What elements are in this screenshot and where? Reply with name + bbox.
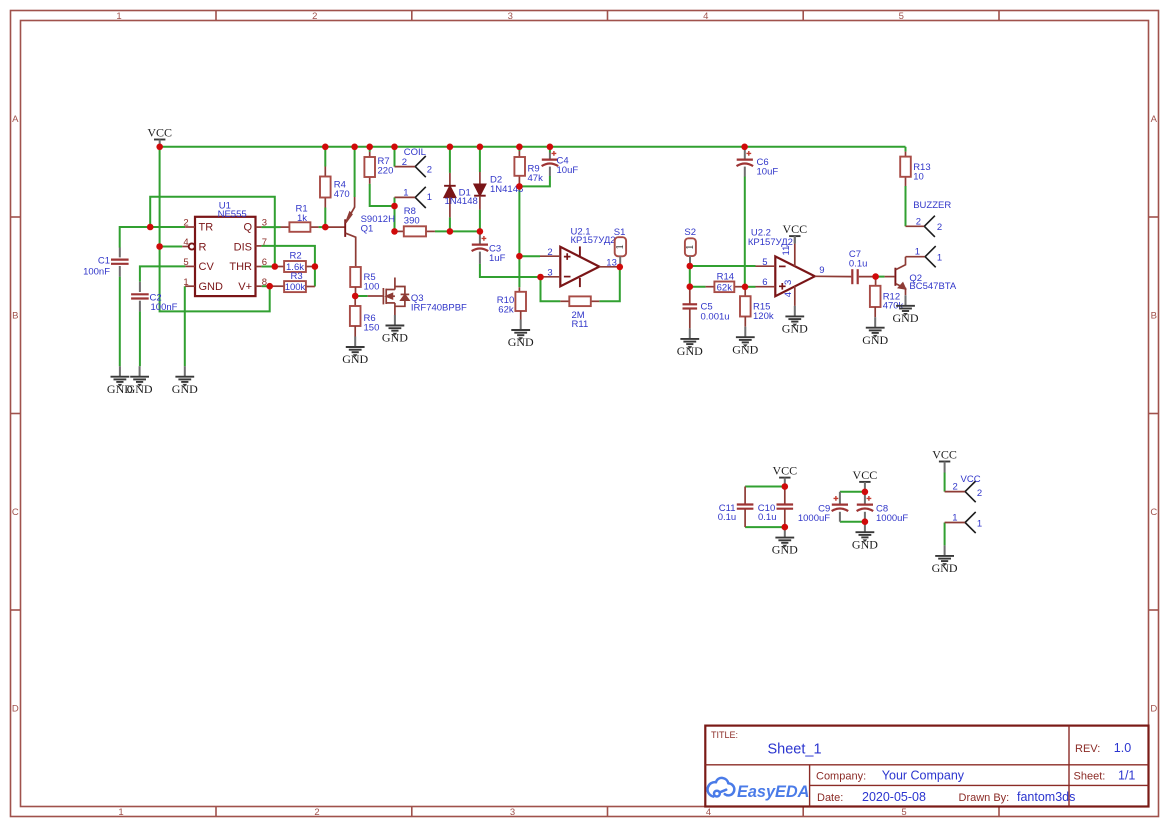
svg-text:10uF: 10uF [757,167,779,178]
wire C9 bottom to C8 GND node [840,521,865,523]
svg-text:470: 470 [334,189,350,200]
wire VCC rail to Q1 emitter [354,147,356,197]
svg-text:VCC: VCC [853,468,878,482]
svg-text:R11: R11 [572,319,589,330]
resistor R3 [270,271,315,293]
resistor R9 [514,151,543,186]
svg-text:КР157УД2: КР157УД2 [571,235,616,246]
U2.2 reference labels [748,227,793,248]
power VCC main [147,126,172,147]
ground GND C5 [677,328,703,358]
frame row letters right [1150,114,1157,714]
ground GND Q3 [382,315,408,345]
capacitor C8 1000uF [857,492,909,524]
wire R pin4 stub [160,246,183,248]
IC U1 NE555 [182,217,261,296]
capacitor C10 0.1u [758,487,793,528]
wire D1 to R8 node [449,217,451,231]
svg-text:A: A [12,114,19,125]
svg-text:2: 2 [402,157,407,168]
svg-text:1000uF: 1000uF [876,513,908,524]
wire TR-THR top loop [150,197,275,267]
wire R1 to Q1 base node [319,226,326,228]
wire C3 to op-amp pin3 [480,264,541,277]
capacitor C1 [83,248,129,278]
wire R13 to BUZZER pin2 [905,186,907,226]
svg-text:C: C [1150,507,1157,518]
ground GND C1 [107,366,133,396]
transistor Q1 S9012H [325,197,395,267]
svg-text:1: 1 [427,192,432,203]
ground GND U2.2 [782,306,808,336]
wire Q pin3 to R1 [261,226,280,228]
svg-text:5: 5 [899,11,904,22]
ground GND C10 [772,527,798,557]
svg-text:5: 5 [762,257,767,268]
connector COIL pin 1 [395,187,433,208]
wire VCC top rail [160,146,906,148]
svg-text:Sheet_1: Sheet_1 [768,742,822,758]
junction dots circuit [147,183,879,530]
wire D2 to C3 node [479,210,481,232]
svg-text:47k: 47k [528,173,544,184]
wire VCC rail to COIL pin2 [394,147,396,167]
svg-text:1: 1 [116,11,121,22]
wire R14 right node to pin6 [745,286,756,288]
wire C11 bottom to C10 GND node [745,526,785,528]
wire TR pin2 to C1 [120,227,185,248]
ground GND C8 [852,522,878,552]
svg-text:DIS: DIS [234,241,252,253]
svg-text:CV: CV [199,261,215,273]
wire C1 to GND [119,277,121,367]
svg-text:S2: S2 [684,227,696,238]
frame row ticks right [1149,217,1159,610]
svg-text:GND: GND [508,335,534,349]
wire Q1/R5 node to Q3 gate [355,295,368,297]
U2.2 pin numbers [762,246,824,298]
svg-text:THR: THR [229,261,252,273]
capacitor C6 10uF [737,147,779,178]
wire C8 VCC node to C9 [840,491,865,493]
connector pin 1 to GND [945,512,983,533]
svg-text:390: 390 [404,216,420,227]
svg-text:62k: 62k [498,305,514,316]
svg-text:0.1u: 0.1u [718,512,737,523]
svg-text:8: 8 [262,277,267,288]
title block inner lines [705,726,1148,807]
svg-text:4: 4 [706,807,711,818]
resistor R14 62k [706,271,745,293]
svg-text:62k: 62k [717,282,733,293]
ground GND C2 [127,366,153,396]
svg-text:9: 9 [819,265,824,276]
svg-text:VCC: VCC [147,126,172,140]
svg-text:COIL: COIL [404,147,426,158]
svg-text:NE555: NE555 [218,209,247,220]
svg-text:C: C [12,507,19,518]
svg-text:GND: GND [382,331,408,345]
resistor R4 [320,167,350,208]
svg-text:10uF: 10uF [557,165,579,176]
svg-text:R2: R2 [290,251,302,262]
switch S2 [684,227,696,266]
wire VCC connector stem [944,469,946,473]
svg-text:100k: 100k [285,282,306,293]
wire C2 to GND [139,311,141,366]
wire R9/C4 node down to pin2 and R10 [518,186,520,287]
svg-text:GND: GND [732,342,758,356]
svg-text:BC547BTA: BC547BTA [909,281,956,292]
wire S2 node down to R14 node [689,266,691,287]
svg-text:2: 2 [427,164,432,175]
svg-text:Date:: Date: [817,792,843,804]
svg-text:1: 1 [977,518,982,529]
svg-text:B: B [12,311,18,322]
resistor R12 [870,277,904,318]
U1 reference labels [218,200,247,220]
wire CV pin5 to C2 [140,266,186,281]
frame row ticks left [11,217,21,610]
wire U2.1 feedback loop via R11 [541,277,561,301]
wire DIS pin7 to R2/R3 right side [261,246,315,287]
svg-text:VCC: VCC [772,464,797,478]
wire THR pin6 stub [261,266,274,268]
power VCC connector [932,448,957,469]
svg-text:BUZZER: BUZZER [913,200,951,211]
ground GND U1 [172,366,198,396]
svg-text:1uF: 1uF [489,253,506,264]
wire VCC rail to R9 [518,147,520,151]
frame column ticks top [216,11,999,21]
svg-text:1/1: 1/1 [1118,769,1135,783]
ground GND R15 [732,327,758,357]
svg-text:100nF: 100nF [151,302,178,313]
svg-text:D: D [12,704,19,715]
svg-text:B: B [1151,311,1157,322]
svg-text:1000uF: 1000uF [798,513,830,524]
svg-text:GND: GND [852,537,878,551]
wire C6 down to U2.2 pin6 node [744,177,746,287]
resistor R5 [350,267,379,296]
wire VCC rail to D2 [479,147,481,172]
svg-text:GND: GND [772,543,798,557]
svg-text:2020-05-08: 2020-05-08 [862,790,926,804]
svg-text:GND: GND [342,352,368,366]
svg-text:GND: GND [862,333,888,347]
svg-text:GND: GND [782,322,808,336]
svg-text:GND: GND [199,281,224,293]
svg-text:2: 2 [183,217,188,228]
svg-text:2: 2 [916,216,921,227]
resistor R10 [497,287,526,319]
wire S2 node to op-amp pin5 [690,265,756,267]
svg-text:1: 1 [952,512,957,523]
svg-text:Drawn By:: Drawn By: [959,792,1010,804]
connector BUZZER pin 2 [906,216,943,237]
ground GND Q2 [893,295,919,325]
wire C10 VCC node to C11 [745,486,785,488]
svg-text:6: 6 [762,277,767,288]
svg-text:V+: V+ [238,281,252,293]
svg-text:3: 3 [508,11,513,22]
svg-text:EasyEDA: EasyEDA [737,783,809,801]
svg-text:Q1: Q1 [361,224,374,235]
svg-text:КР157УД2: КР157УД2 [748,237,793,248]
resistor R2 [275,251,315,273]
svg-text:150: 150 [364,323,380,334]
svg-text:1: 1 [403,188,408,199]
svg-text:2: 2 [977,488,982,499]
transistor Q3 IRF740BPBF mosfet [368,278,467,316]
wire R8 to D1 anode node [435,230,480,232]
capacitor C2 [131,282,178,313]
svg-text:TR: TR [199,222,214,234]
capacitor C11 0.1u [718,487,754,528]
frame column numbers bottom [118,807,906,818]
resistor R13 [900,152,930,186]
svg-text:1: 1 [684,244,696,250]
resistor R8 [395,206,435,236]
svg-text:2: 2 [953,482,958,493]
svg-text:fantom3ds: fantom3ds [1017,790,1075,804]
svg-text:1.0: 1.0 [1114,741,1131,755]
svg-text:4: 4 [703,11,708,22]
svg-text:4: 4 [783,292,794,297]
svg-text:6: 6 [262,257,267,268]
diode D2 1N4148 [474,172,523,210]
ground GND R10 [508,320,534,350]
wire pin2 node to op-amp [519,255,540,257]
wire Q2 base [878,276,885,278]
svg-text:1: 1 [937,253,942,264]
diode D1 1N4148 [444,173,478,218]
svg-text:5: 5 [183,257,188,268]
resistor R1 [281,204,319,232]
connector COIL pin 2 [395,156,433,177]
ground GND connector [932,545,958,575]
svg-text:220: 220 [378,166,394,177]
U2.1 reference labels [571,226,616,246]
svg-text:R3: R3 [291,271,303,282]
op-amp U2.2 [756,244,852,306]
svg-text:GND: GND [893,311,919,325]
svg-text:GND: GND [127,382,153,396]
svg-text:1k: 1k [297,213,307,224]
resistor R7 [364,152,393,184]
svg-text:2: 2 [312,11,317,22]
svg-text:Your Company: Your Company [882,769,965,783]
frame column numbers top [116,11,904,22]
wire 555 GND pin1 down [184,286,186,366]
resistor R15 [740,287,774,327]
svg-text:10: 10 [913,172,924,183]
svg-text:R14: R14 [717,271,734,282]
svg-text:100: 100 [364,282,380,293]
frame row letters left [12,114,19,714]
svg-text:0.001u: 0.001u [701,312,730,323]
svg-text:3: 3 [262,217,267,228]
svg-text:R: R [199,241,207,253]
wire R11 to U2.1 output [599,267,620,301]
svg-text:S1: S1 [614,227,626,238]
svg-text:GND: GND [677,344,703,358]
svg-text:C1: C1 [98,256,110,267]
EasyEDA logo cloud [708,778,735,797]
switch S1 [614,227,626,267]
wire VCC rail corner to R13 [905,147,907,152]
svg-text:3: 3 [547,268,552,279]
wire VCC rail to D1 [449,147,451,173]
capacitor C5 0.001u [683,287,730,329]
wire R7 to COIL pin1 node [370,184,395,206]
svg-text:3: 3 [510,807,515,818]
title block border [705,726,1148,807]
capacitor C4 10uF [542,151,579,176]
svg-text:120k: 120k [753,311,774,322]
svg-text:REV:: REV: [1075,743,1100,755]
junction dots VCC rail [156,144,748,151]
U2.1 pin numbers [547,247,616,279]
svg-text:Sheet:: Sheet: [1074,771,1106,783]
svg-text:1: 1 [614,244,626,250]
svg-text:13: 13 [606,258,617,269]
wire V+ pin8 stub [262,285,270,287]
wire VCC to connector pin2 [944,472,946,491]
power VCC C8 [853,468,878,489]
svg-text:TITLE:: TITLE: [711,730,738,740]
svg-text:VCC: VCC [961,474,981,485]
wire C4 bottom to R9 node [519,176,550,186]
wire R4 to Q1 base node [324,208,326,228]
svg-text:4: 4 [183,237,188,248]
op-amp U2.1 [540,246,620,287]
svg-text:0.1u: 0.1u [849,259,868,270]
svg-text:Q: Q [243,222,252,234]
wire VCC symbol to rail riser / pin4 R / V+ loop [160,147,270,312]
svg-text:5: 5 [901,807,906,818]
ground GND R6 [342,337,368,367]
wire VCC rail to C4 [549,147,551,153]
svg-text:GND: GND [932,561,958,575]
svg-text:7: 7 [262,237,267,248]
svg-text:1: 1 [183,277,188,288]
wire VCC rail to R4 [324,147,326,167]
resistor R6 [350,296,379,337]
power VCC C10 [772,464,797,485]
svg-text:A: A [1151,114,1158,125]
svg-text:1: 1 [118,807,123,818]
svg-text:1N4148: 1N4148 [445,196,478,207]
wire R14 left node [690,286,706,288]
svg-text:2: 2 [314,807,319,818]
svg-text:100nF: 100nF [83,266,110,277]
ground GND R12 [862,317,888,347]
svg-text:2: 2 [937,222,942,233]
svg-text:D: D [1150,704,1157,715]
wire connector pin1 to GND [944,523,946,546]
connector BUZZER pin 1 [906,246,943,267]
svg-text:Company:: Company: [816,771,866,783]
svg-text:IRF740BPBF: IRF740BPBF [411,303,467,314]
U1 pin numbers [183,217,267,288]
svg-text:VCC: VCC [932,448,957,462]
capacitor C3 1uF [472,231,506,264]
wire COIL pin1 node [394,197,396,231]
transistor Q2 BC547BTA [885,257,957,296]
wire VCC rail to R7 [369,147,371,152]
capacitor C7 0.1u [849,249,876,284]
resistor R11 2M feedback [560,296,599,330]
connector pin 2 to VCC [945,481,983,502]
svg-text:0.1u: 0.1u [758,512,777,523]
svg-text:VCC: VCC [782,222,807,236]
svg-text:GND: GND [172,382,198,396]
svg-text:3: 3 [783,280,794,285]
svg-text:1: 1 [915,247,920,258]
capacitor C9 1000uF [798,492,848,524]
svg-text:2: 2 [547,247,552,258]
frame column ticks bottom [216,807,999,817]
